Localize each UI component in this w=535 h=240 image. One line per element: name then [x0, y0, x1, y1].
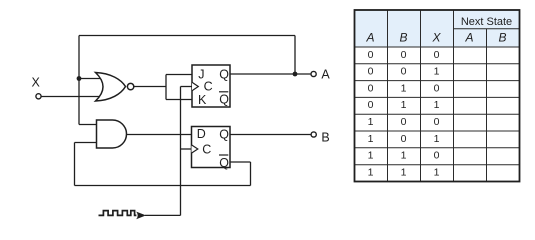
wire NOR top input [79, 78, 101, 80]
wire clock vertical [180, 87, 182, 216]
junction node at NOR top input [77, 76, 82, 81]
table row line 2 [355, 80, 520, 82]
wire NOR output [134, 86, 166, 88]
wire right vertical down to A node [294, 36, 296, 75]
input terminal X [36, 94, 41, 99]
svg-text:1: 1 [401, 82, 407, 94]
svg-text:1: 1 [434, 66, 440, 78]
svg-text:0: 0 [368, 66, 374, 78]
wire D flip-flop Qbar output [230, 161, 251, 163]
wire K input [166, 99, 192, 101]
table column line X|NextA [453, 10, 455, 182]
svg-text:A: A [464, 31, 473, 45]
svg-text:A: A [365, 31, 374, 45]
svg-text:X: X [32, 76, 41, 90]
svg-text:Q: Q [219, 93, 229, 107]
JK flip-flop clock triangle [192, 82, 198, 90]
wire AND top input [79, 124, 98, 126]
wire AND output to D input [127, 134, 192, 136]
svg-text:1: 1 [434, 166, 440, 178]
wire AND bottom input [75, 142, 99, 144]
svg-text:1: 1 [368, 116, 374, 128]
table header bottom line [355, 46, 520, 48]
table column line A|B [387, 10, 389, 182]
table column line B|X [420, 10, 422, 182]
svg-text:D: D [197, 127, 206, 141]
svg-text:1: 1 [401, 99, 407, 111]
svg-text:1: 1 [401, 166, 407, 178]
svg-text:0: 0 [401, 116, 407, 128]
svg-text:1: 1 [401, 150, 407, 162]
svg-text:B: B [399, 31, 407, 45]
svg-text:0: 0 [368, 49, 374, 61]
svg-text:Q: Q [219, 156, 229, 170]
svg-text:X: X [431, 31, 441, 45]
svg-text:0: 0 [434, 49, 440, 61]
wire JK bracket vertical [165, 75, 167, 100]
table outer border [355, 10, 520, 182]
table header background [355, 10, 520, 47]
wire J input [166, 74, 192, 76]
wire D Q output to B [230, 134, 311, 136]
svg-text:Q: Q [219, 128, 229, 142]
svg-text:C: C [202, 142, 211, 156]
table row line 5 [355, 130, 520, 132]
JK flip-flop Q-bar overline [219, 91, 228, 93]
table header split line under Next State [454, 28, 520, 30]
JK flip-flop U3 box [192, 65, 230, 107]
output terminal B [311, 132, 316, 137]
D flip-flop clock triangle [192, 145, 198, 153]
table column line NextA|NextB [486, 29, 488, 182]
D flip-flop U4 box [192, 127, 231, 168]
NOR gate U1 output bubble [127, 83, 133, 89]
wire A-feedback vertical [78, 36, 80, 125]
wire B-feedback vertical [74, 143, 76, 186]
table row line 6 [355, 147, 520, 149]
table row line 4 [355, 113, 520, 115]
svg-text:1: 1 [434, 133, 440, 145]
wire bottom feedback [75, 185, 251, 187]
svg-text:1: 1 [368, 166, 374, 178]
svg-text:0: 0 [434, 150, 440, 162]
table row line 1 [355, 63, 520, 65]
svg-text:0: 0 [434, 116, 440, 128]
svg-text:0: 0 [434, 82, 440, 94]
svg-text:0: 0 [368, 99, 374, 111]
wire clock horizontal [145, 214, 181, 216]
svg-text:B: B [321, 131, 329, 145]
svg-text:0: 0 [401, 133, 407, 145]
svg-text:0: 0 [401, 66, 407, 78]
clock waveform symbol [99, 211, 137, 216]
wire JK clock stub [181, 86, 193, 88]
svg-text:1: 1 [368, 133, 374, 145]
junction node at A output [293, 72, 298, 77]
svg-text:0: 0 [401, 49, 407, 61]
table data rows [368, 49, 440, 179]
table row line 3 [355, 96, 520, 98]
svg-text:Next State: Next State [461, 16, 512, 28]
wire X input [41, 96, 101, 98]
table row line 7 [355, 164, 520, 166]
svg-text:0: 0 [368, 82, 374, 94]
wire Qbar vertical [250, 162, 252, 186]
clock arrow head [136, 212, 146, 220]
svg-text:Q: Q [219, 68, 229, 82]
wire top feedback from A node [79, 35, 295, 37]
svg-text:1: 1 [368, 150, 374, 162]
svg-text:C: C [204, 79, 213, 93]
svg-text:B: B [498, 31, 506, 45]
AND gate U2 body [97, 120, 127, 148]
output terminal A [311, 71, 316, 76]
NOR gate U1 body [96, 73, 126, 102]
table data background [355, 47, 520, 182]
svg-text:K: K [198, 93, 207, 107]
svg-text:A: A [321, 68, 330, 82]
wire JK Q output to A [230, 73, 311, 75]
D flip-flop Q-bar overline [219, 154, 228, 156]
svg-text:1: 1 [434, 99, 440, 111]
wire D clock stub [181, 148, 192, 150]
